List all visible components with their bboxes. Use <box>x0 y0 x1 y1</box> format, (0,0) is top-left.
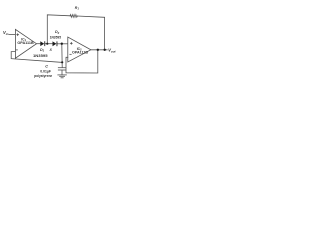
junction IC2 loop <box>97 49 99 51</box>
junction cap to IC1 feedback <box>61 61 63 63</box>
plus sign IC1 <box>17 34 19 36</box>
wire IC2 unity feedback loop <box>66 50 98 73</box>
svg-text:polystyrene: polystyrene <box>34 74 52 78</box>
junction R1 to Vout <box>104 49 106 51</box>
svg-text:D2: D2 <box>55 30 60 35</box>
wire feedback riser from node X <box>47 15 70 44</box>
node X junction <box>46 43 48 45</box>
svg-text:1N3595: 1N3595 <box>33 53 48 58</box>
minus sign IC2 <box>70 53 72 55</box>
plus sign IC2 <box>70 42 72 44</box>
svg-text:OPA111B: OPA111B <box>72 50 88 54</box>
svg-text:OPA111B: OPA111B <box>17 41 34 45</box>
wire Vin input <box>9 33 15 35</box>
op-amp IC2 <box>68 37 91 62</box>
capacitor C <box>58 67 65 69</box>
wire IC1 inverting feedback to hold node <box>11 52 62 63</box>
diode D1 <box>40 41 44 46</box>
hold node junction <box>61 43 63 45</box>
svg-text:R1: R1 <box>75 6 80 11</box>
svg-text:Vin: Vin <box>3 30 9 36</box>
wire IC2 output to Vout <box>91 49 107 51</box>
svg-text:0.01µF: 0.01µF <box>40 69 51 73</box>
wire IC1 output <box>37 43 41 45</box>
svg-text:1N3595: 1N3595 <box>50 36 61 40</box>
diode D2 <box>53 41 57 46</box>
wire R1 to Vout node <box>77 16 104 50</box>
wire D1 cathode to node X <box>45 43 52 45</box>
ground <box>58 74 67 76</box>
minus sign IC1 <box>16 49 17 51</box>
svg-text:C: C <box>45 65 48 69</box>
svg-text:X: X <box>49 48 53 52</box>
resistor R1 <box>70 15 77 18</box>
op-amp IC1 <box>15 29 36 58</box>
wire hold node down to capacitor <box>61 44 63 68</box>
wire D2 cathode to IC2 + input <box>57 43 68 45</box>
